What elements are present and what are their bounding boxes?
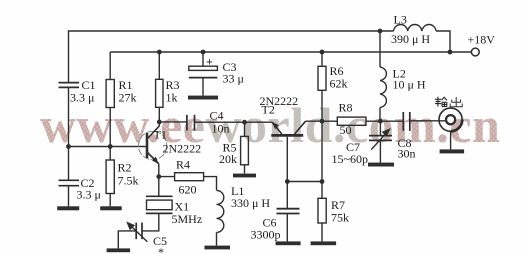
ground under output (440, 149, 465, 153)
output connector (439, 108, 462, 131)
svg-text:L3: L3 (394, 13, 407, 27)
T1 emitter arrowhead (152, 157, 159, 165)
svg-text:*: * (158, 245, 164, 254)
label 输出 (output, drawn strokes) (435, 97, 462, 107)
ground bars (57, 96, 464, 253)
svg-text:+: + (206, 55, 213, 69)
svg-text:50: 50 (340, 123, 352, 137)
wire output to ground (450, 131, 452, 149)
svg-text:30n: 30n (398, 147, 416, 161)
svg-text:33 μ: 33 μ (223, 72, 244, 86)
wire X1 to C5 (142, 213, 159, 231)
svg-text:20k: 20k (219, 152, 237, 166)
svg-text:T2: T2 (262, 103, 275, 117)
C5 arrowhead (126, 221, 135, 230)
ground under C3 (188, 96, 218, 100)
capacitor C1 (59, 83, 80, 88)
svg-text:C4: C4 (210, 109, 224, 123)
capacitor C5 variable (136, 223, 142, 240)
svg-text:10 μ H: 10 μ H (393, 78, 426, 92)
svg-text:10n: 10n (212, 122, 230, 136)
wire rail2 y=52 (110, 51, 450, 53)
resistor R8 (337, 117, 366, 125)
resistor R5 (244, 122, 246, 136)
svg-text:R2: R2 (118, 161, 132, 175)
ground under R7 (311, 241, 337, 245)
transistor T1 (147, 126, 159, 164)
svg-text:620: 620 (179, 183, 197, 197)
wire L1 to ground (216, 232, 218, 245)
ground under C7 (368, 163, 394, 167)
ground under R5 (233, 174, 256, 178)
wire C2 to ground (68, 186, 70, 207)
svg-text:7.5k: 7.5k (118, 174, 139, 188)
svg-text:R8: R8 (339, 101, 353, 115)
resistor R7 (321, 182, 323, 199)
svg-text:75k: 75k (331, 211, 349, 225)
capacitor C8 (403, 112, 410, 131)
ground under C6 (276, 241, 301, 245)
transistor T2 (271, 121, 305, 135)
ground under L1 (205, 246, 231, 250)
svg-text:3.3 μ: 3.3 μ (70, 91, 94, 105)
capacitor C4 (187, 115, 195, 131)
svg-text:1k: 1k (166, 91, 178, 105)
svg-text:390 μ H: 390 μ H (391, 32, 430, 46)
C7 arrow (371, 131, 388, 150)
svg-text:+18V: +18V (468, 33, 496, 47)
resistor R6 (321, 52, 323, 66)
capacitor C3 polarized (202, 52, 204, 66)
transistor T1 circle (138, 131, 166, 159)
wire collector rail y=121 (306, 120, 338, 122)
capacitor C7 variable (379, 121, 381, 135)
watermark gray text (40, 100, 500, 150)
wire C5 to ground (118, 231, 136, 249)
arrowheads (126, 128, 391, 230)
wire base rail y=146.5 (69, 146, 146, 148)
capacitor C2 (59, 180, 80, 185)
crystal X1 bottom plate (146, 212, 173, 214)
wire C4 to T2 emitter (195, 121, 273, 123)
svg-text:330 μ H: 330 μ H (231, 196, 270, 210)
svg-text:3.3 μ: 3.3 μ (77, 188, 101, 202)
wire C1 to base node (68, 87, 70, 180)
wire C4 node rail y=122 (159, 121, 187, 123)
terminal +18V (471, 48, 479, 56)
wire T1 collector to C4 node (158, 122, 160, 126)
T2 emitter arrowhead (272, 122, 279, 129)
capacitor C6 (286, 182, 288, 209)
wire base bias y=181.5 (287, 181, 322, 183)
resistor R2 (106, 160, 114, 194)
crystal X1 body (147, 200, 173, 210)
resistor R3 (158, 52, 160, 79)
svg-text:27k: 27k (119, 91, 137, 105)
svg-text:5MHz: 5MHz (172, 212, 203, 226)
C7 arrowhead (382, 128, 391, 137)
wire C8 to output (410, 120, 446, 122)
C5 arrow (130, 225, 148, 242)
inductor L2 (379, 31, 381, 67)
svg-text:15~60p: 15~60p (332, 152, 369, 166)
svg-text:R4: R4 (176, 158, 190, 172)
svg-text:2N2222: 2N2222 (163, 142, 202, 156)
wire T2 base down (286, 137, 288, 182)
wire T1 emitter down (158, 164, 160, 197)
wire R8 to C8 (366, 120, 403, 122)
inductor L3 (394, 24, 437, 31)
inductor L1 (217, 190, 224, 232)
ground under C5 (107, 248, 131, 252)
ground under R2 (100, 206, 122, 210)
svg-text:3300p: 3300p (251, 228, 281, 242)
crystal X1 top plate (146, 195, 173, 197)
svg-text:62k: 62k (330, 77, 348, 91)
resistor R4 (159, 176, 175, 178)
resistor R1 (109, 52, 111, 80)
ground under C2 (57, 206, 79, 210)
svg-text:T1: T1 (154, 128, 167, 142)
wire L3 right to +18V (436, 31, 471, 52)
wire top rail y=31 (69, 31, 394, 82)
watermark pink hatched text (40, 100, 500, 150)
